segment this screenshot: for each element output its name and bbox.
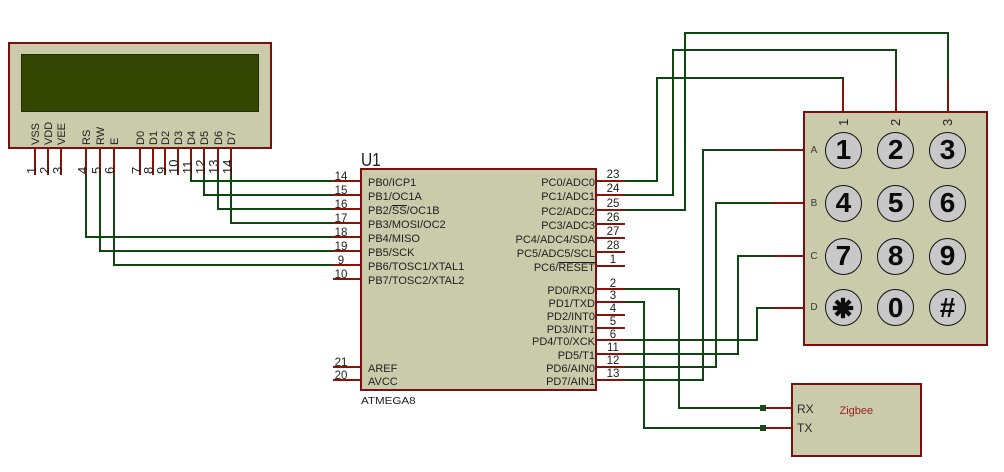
LCD pin 4 label RS — [81, 130, 94, 145]
Zigbee pin name RX — [797, 403, 814, 416]
keypad digit 9 — [929, 237, 966, 274]
wire PC0 to keypad col 1 segment 2 — [656, 77, 658, 183]
U1 pin name PC2/ADC2 — [445, 206, 595, 219]
U1 pin 9 stub — [333, 264, 360, 266]
wire PD4 to keypad row D segment 1 — [625, 339, 758, 341]
U1 pin 14 stub — [333, 180, 360, 182]
keypad row pin D stub — [773, 307, 803, 309]
LCD pin 8 label D1 — [148, 131, 161, 145]
U1 pin name PB1/OC1A — [368, 191, 422, 204]
wire PD0 to Zigbee RX segment 1 — [625, 288, 680, 290]
wire RS to PB4 horizontal — [85, 236, 333, 238]
U1 pin name PC5/ADC5/SCL — [445, 248, 595, 261]
U1 pin number 20 — [329, 370, 353, 383]
wire PD1 to Zigbee TX segment 3 — [643, 427, 763, 429]
U1 pin 19 stub — [333, 250, 360, 252]
U1 pin name PD1/TXD — [445, 298, 595, 311]
LCD pin 5 label RW — [95, 127, 108, 145]
LCD pin 12 stub — [203, 147, 205, 175]
LCD pin 12 label D5 — [199, 131, 212, 145]
U1 pin number 13 — [601, 368, 625, 381]
wire drop to keypad col 1 — [842, 77, 844, 83]
keypad digit 6 — [929, 184, 966, 221]
value label ATMEGA8 — [361, 396, 416, 407]
U1 pin name PC0/ADC0 — [445, 177, 595, 190]
keypad button 1 — [825, 132, 862, 169]
U1 pin number 2 — [601, 278, 625, 291]
keypad row label B — [808, 197, 820, 210]
U1 pin number 15 — [329, 185, 353, 198]
wire PD0 to Zigbee RX segment 3 — [678, 407, 763, 409]
wire PD5 to keypad row C segment 3 — [737, 255, 774, 257]
LCD pin 2 label VDD — [43, 122, 56, 145]
keypad digit 5 — [877, 184, 914, 221]
LCD pin 6 label E — [109, 138, 122, 145]
Zigbee pin RX terminal square — [760, 405, 766, 411]
U1 pin 18 stub — [333, 236, 360, 238]
LCD pin 5 stub — [99, 147, 101, 175]
U1 pin name PD4/T0/XCK — [445, 336, 595, 349]
wire D4 to PB0 horizontal — [190, 180, 333, 182]
LCD pin 1 label VSS — [30, 123, 43, 145]
LCD pin 3 stub — [60, 147, 62, 175]
LCD pin 13 label D6 — [213, 131, 226, 145]
U1 pin 13 stub — [597, 379, 625, 381]
U1 pin name PD0/RXD — [445, 285, 595, 298]
LCD pin number 11 — [180, 161, 195, 175]
U1 pin name AVCC — [368, 376, 398, 389]
U1 pin number 26 — [601, 212, 625, 225]
U1 pin number 10 — [329, 269, 353, 282]
U1 pin 26 stub — [597, 223, 625, 225]
wire PC1 to keypad col 2 segment 2 — [672, 49, 674, 196]
LCD pin 1 stub — [34, 147, 36, 175]
U1 pin number 28 — [601, 240, 625, 253]
wire D6 to PB2 vertical — [217, 174, 219, 210]
U1 pin number 9 — [329, 255, 353, 268]
wire PC2 to keypad col 3 segment 2 — [684, 32, 686, 211]
U1 pin 17 stub — [333, 222, 360, 224]
U1 pin 21 stub — [333, 366, 360, 368]
U1 pin 25 stub — [597, 209, 625, 211]
wire PD5 to keypad row C segment 2 — [737, 255, 739, 355]
LCD screen — [21, 54, 259, 112]
LCD pin 6 stub — [113, 147, 115, 175]
keypad row label D — [808, 301, 820, 314]
keypad digit # — [929, 289, 966, 326]
U1 pin name PB4/MISO — [368, 233, 420, 246]
U1 pin 6 stub — [597, 339, 625, 341]
keypad row pin A stub — [773, 149, 803, 151]
reference designator U1 — [361, 151, 381, 169]
U1 pin name PC1/ADC1 — [445, 191, 595, 204]
keypad button * — [825, 289, 862, 326]
Zigbee label — [840, 405, 874, 418]
keypad button 7 — [825, 238, 862, 275]
U1 pin 20 stub — [333, 379, 360, 381]
U1 pin 11 stub — [597, 353, 625, 355]
Zigbee pin RX stub — [762, 407, 791, 409]
keypad column pin 3 stub — [947, 81, 949, 111]
keypad digit 4 — [825, 184, 862, 221]
LCD pin 11 stub — [190, 147, 192, 175]
keypad digit 7 — [825, 237, 862, 274]
U1 pin 27 stub — [597, 237, 625, 239]
U1 pin number 16 — [329, 199, 353, 212]
keypad button 0 — [877, 289, 914, 326]
keypad button 5 — [877, 185, 914, 222]
LCD pin 11 label D4 — [186, 131, 199, 145]
LCD pin 9 label D2 — [160, 131, 173, 145]
U1 pin name PD7/AIN1 — [445, 376, 595, 389]
LCD pin 13 stub — [217, 147, 219, 175]
keypad row label A — [808, 144, 820, 157]
wire D7 to PB3 horizontal — [230, 222, 333, 224]
LCD pin number 4 — [75, 167, 90, 174]
LCD pin number 1 — [24, 167, 39, 174]
U1 pin number 4 — [601, 303, 625, 316]
wire D7 to PB3 vertical — [230, 174, 232, 224]
U1 pin name AREF — [368, 363, 397, 376]
LCD pin 7 label D0 — [135, 131, 148, 145]
U1 pin 28 stub — [597, 251, 625, 253]
LCD pin 2 stub — [47, 147, 49, 175]
LCD pin 3 label VEE — [56, 123, 69, 145]
U1 pin name PB7/TOSC2/XTAL2 — [368, 275, 464, 288]
microcontroller U1 ATMEGA8 body — [360, 168, 597, 391]
U1 pin 3 stub — [597, 301, 625, 303]
U1 pin name PC4/ADC4/SDA — [445, 234, 595, 247]
LCD pin number 10 — [166, 160, 181, 174]
keypad column pin 2 stub — [895, 81, 897, 111]
keypad digit 3 — [929, 131, 966, 168]
LCD pin 7 stub — [139, 147, 141, 175]
U1 pin number 24 — [601, 183, 625, 196]
LCD pin number 3 — [50, 167, 65, 174]
U1 pin number 1 — [601, 254, 625, 267]
U1 pin name PD3/INT1 — [445, 324, 595, 337]
LCD pin number 7 — [129, 167, 144, 174]
wire PD1 to Zigbee TX segment 2 — [643, 301, 645, 429]
LCD pin 4 stub — [85, 147, 87, 175]
U1 pin number 17 — [329, 213, 353, 226]
wire D6 to PB2 horizontal — [217, 208, 333, 210]
LCD pin 14 label D7 — [226, 131, 239, 145]
U1 pin name PD5/T1 — [445, 350, 595, 363]
U1 pin number 23 — [601, 169, 625, 182]
keypad column label 2 — [888, 118, 903, 125]
wire PD4 to keypad row D segment 3 — [756, 307, 775, 309]
LCD pin 14 stub — [230, 147, 232, 175]
U1 pin number 11 — [601, 342, 625, 355]
keypad row pin C stub — [773, 255, 803, 257]
wire PD7 to keypad row A segment 1 — [625, 379, 704, 381]
Zigbee module body — [791, 383, 922, 458]
U1 pin 16 stub — [333, 208, 360, 210]
wire drop to keypad col 3 — [947, 32, 949, 83]
keypad button 4 — [825, 185, 862, 222]
keypad body — [803, 111, 988, 346]
keypad digit 1 — [825, 131, 862, 168]
U1 pin name PB3/MOSI/OC2 — [368, 219, 446, 232]
keypad button 8 — [877, 238, 914, 275]
wire E to PB6 vertical — [113, 174, 115, 266]
LCD display LCD1 body — [8, 42, 272, 149]
wire PC1 to keypad col 2 segment 3 — [672, 49, 897, 51]
wire PD7 to keypad row A segment 2 — [702, 149, 704, 381]
keypad button 3 — [929, 132, 966, 169]
LCD pin number 8 — [141, 167, 156, 174]
U1 pin number 27 — [601, 226, 625, 239]
U1 pin 1 stub — [597, 265, 625, 267]
LCD pin number 6 — [102, 167, 117, 174]
wire PD1 to Zigbee TX segment 1 — [625, 301, 645, 303]
U1 pin 23 stub — [597, 180, 625, 182]
Zigbee pin TX stub — [762, 427, 791, 429]
U1 pin number 19 — [329, 241, 353, 254]
wire D4 to PB0 vertical — [190, 174, 192, 182]
U1 pin name PC3/ADC3 — [445, 220, 595, 233]
wire D5 to PB1 horizontal — [203, 194, 333, 196]
wire PC0 to keypad col 1 segment 1 — [625, 180, 658, 182]
keypad digit 8 — [877, 237, 914, 274]
U1 pin 12 stub — [597, 366, 625, 368]
keypad button 2 — [877, 132, 914, 169]
U1 pin 2 stub — [597, 288, 625, 290]
wire PC0 to keypad col 1 segment 3 — [656, 77, 845, 79]
wire PC2 to keypad col 3 segment 3 — [684, 32, 949, 34]
U1 pin number 25 — [601, 198, 625, 211]
LCD pin 8 stub — [152, 147, 154, 175]
LCD pin number 2 — [37, 167, 52, 174]
U1 pin name PD6/AIN0 — [445, 363, 595, 376]
LCD pin number 13 — [206, 160, 221, 174]
wire drop to keypad col 2 — [895, 49, 897, 82]
U1 pin 24 stub — [597, 194, 625, 196]
U1 pin number 12 — [601, 355, 625, 368]
U1 pin number 14 — [329, 171, 353, 184]
U1 pin number 18 — [329, 227, 353, 240]
U1 pin number 21 — [329, 357, 353, 370]
U1 pin number 6 — [601, 329, 625, 342]
U1 pin name PD2/INT0 — [445, 311, 595, 324]
keypad row pin B stub — [773, 202, 803, 204]
U1 pin name PB5/SCK — [368, 247, 414, 260]
Zigbee pin name TX — [797, 422, 812, 435]
U1 pin name PC6/RESET — [445, 262, 595, 275]
LCD pin number 9 — [154, 167, 169, 174]
LCD pin 9 stub — [164, 147, 166, 175]
U1 pin name PB0/ICP1 — [368, 177, 416, 190]
U1 pin 15 stub — [333, 194, 360, 196]
keypad button 6 — [929, 185, 966, 222]
U1 pin number 3 — [601, 290, 625, 303]
LCD pin number 14 — [220, 160, 235, 174]
keypad column pin 1 stub — [842, 81, 844, 111]
keypad button 9 — [929, 238, 966, 275]
U1 pin 10 stub — [333, 278, 360, 280]
keypad row label C — [808, 250, 820, 263]
keypad button # — [929, 289, 966, 326]
wire PD0 to Zigbee RX segment 2 — [678, 288, 680, 409]
wire D5 to PB1 vertical — [203, 174, 205, 196]
LCD pin number 12 — [193, 160, 208, 174]
wire PD6 to keypad row B segment 2 — [715, 202, 717, 368]
keypad column label 1 — [836, 118, 851, 125]
LCD pin 10 stub — [177, 147, 179, 175]
wire RW to PB5 horizontal — [99, 250, 333, 252]
wire PD4 to keypad row D segment 2 — [756, 307, 758, 342]
wire PD6 to keypad row B segment 3 — [715, 202, 775, 204]
Zigbee pin TX terminal square — [760, 425, 766, 431]
keypad digit 2 — [877, 131, 914, 168]
wire PD7 to keypad row A segment 3 — [702, 149, 775, 151]
U1 pin name PB6/TOSC1/XTAL1 — [368, 261, 464, 274]
wire PD5 to keypad row C segment 1 — [625, 353, 739, 355]
U1 pin number 5 — [601, 316, 625, 329]
U1 pin name PB2/SS/OC1B — [368, 205, 440, 218]
wire PC1 to keypad col 2 segment 1 — [625, 194, 674, 196]
keypad star symbol — [831, 296, 855, 320]
wire PD6 to keypad row B segment 1 — [625, 366, 717, 368]
U1 pin 5 stub — [597, 327, 625, 329]
keypad digit 0 — [877, 289, 914, 326]
LCD pin 10 label D3 — [173, 131, 186, 145]
LCD pin number 5 — [89, 167, 104, 174]
wire RS to PB4 vertical — [85, 174, 87, 238]
keypad column label 3 — [940, 118, 955, 125]
wire PC2 to keypad col 3 segment 1 — [625, 209, 686, 211]
wire E to PB6 horizontal — [113, 264, 334, 266]
U1 pin 4 stub — [597, 314, 625, 316]
wire RW to PB5 vertical — [99, 174, 101, 252]
